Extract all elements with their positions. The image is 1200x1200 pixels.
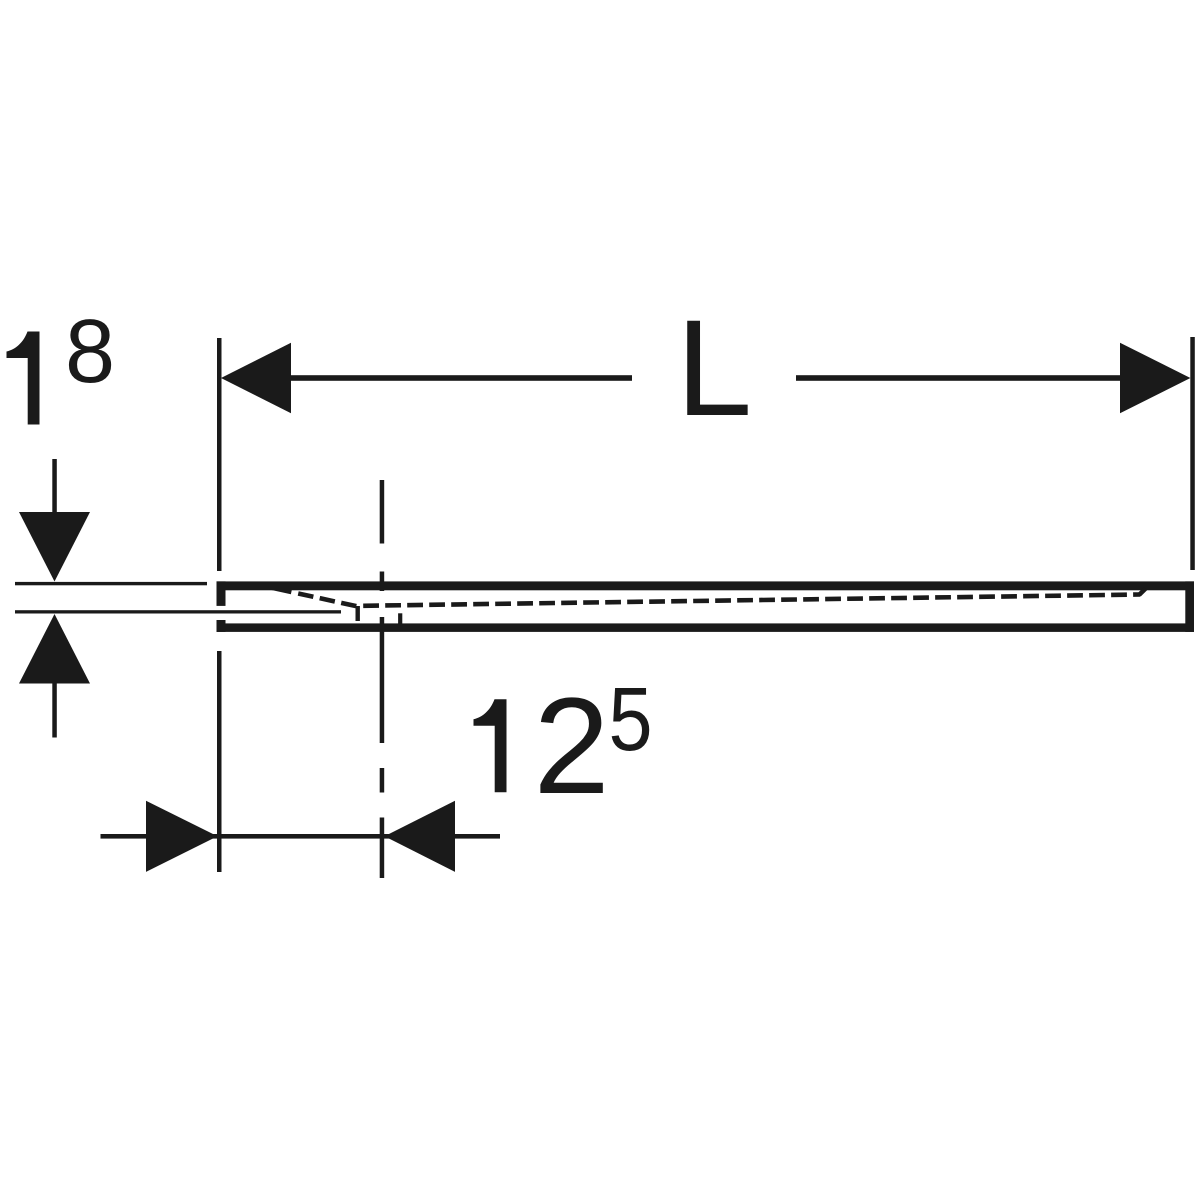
extension line right (top dimension L)	[1190, 337, 1195, 570]
dimension label 1 (value 18, main digit)	[7, 332, 40, 425]
svg-text:2: 2	[534, 670, 610, 823]
tray left edge upper part	[217, 581, 226, 606]
svg-text:L: L	[676, 292, 752, 445]
arrowhead 18 dimension pointing up	[19, 614, 90, 684]
extension line left (top dimension L)	[217, 338, 222, 571]
extension line below tray left (125 dimension)	[217, 651, 222, 872]
tray bottom edge	[217, 623, 1195, 632]
upper thin reference line (top surface level)	[15, 582, 207, 585]
centre line segment at bottom dimension	[380, 818, 385, 879]
dimension line L, right segment	[796, 375, 1125, 381]
hidden floor line end tick	[1139, 589, 1146, 595]
centre line segment through bottom edge	[380, 617, 385, 743]
dimension line L, left segment	[286, 375, 632, 381]
tray left edge lower part	[217, 620, 226, 632]
svg-text:8: 8	[65, 302, 115, 402]
tray top edge	[217, 581, 1195, 590]
lower thin reference line (floor lowest level)	[15, 610, 341, 613]
leader line above down-arrow (18 dimension)	[52, 459, 57, 513]
leader line below up-arrow (18 dimension)	[52, 684, 57, 738]
arrowhead L right	[1120, 343, 1190, 414]
centre line short dash below tray	[380, 768, 385, 793]
svg-text:5: 5	[609, 668, 653, 769]
hidden floor line (dashed, main run)	[363, 595, 1140, 606]
hidden drain edge vertical dash	[398, 613, 402, 624]
centre line short dash crossing top edge	[380, 572, 385, 592]
hidden floor slope line (dashed, left)	[264, 586, 358, 607]
centre line of drain (dash-dot), segment above tray	[380, 480, 385, 544]
dimension line 125	[101, 834, 501, 839]
arrowhead L left	[221, 343, 291, 414]
arrowhead 125 pointing right	[146, 801, 218, 872]
hidden channel edge vertical dash at low point	[356, 606, 360, 621]
arrowhead 18 dimension pointing down	[19, 512, 90, 582]
dimension label 5 (superscript of 125)	[609, 668, 653, 769]
tray right edge	[1185, 581, 1194, 632]
arrowhead 125 pointing left	[385, 801, 456, 872]
dimension label 1 (value 125, first digit)	[474, 699, 507, 792]
